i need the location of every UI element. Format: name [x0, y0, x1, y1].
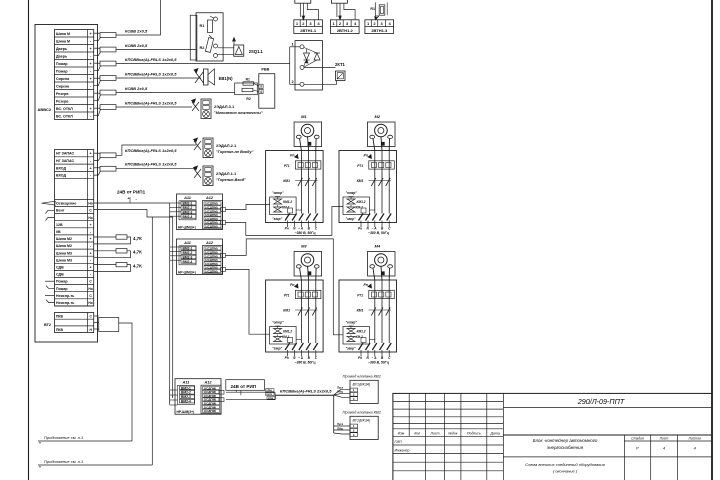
svg-text:КСВВ 2х0,5: КСВВ 2х0,5 — [125, 43, 148, 48]
svg-text:~: ~ — [372, 356, 374, 360]
svg-text:Пуск: Пуск — [337, 422, 344, 426]
svg-text:0В: 0В — [56, 230, 61, 234]
bus stubs into block C — [170, 389, 178, 391]
wire arrow into 2ВТН1.1 pin2 — [302, 3, 304, 20]
svg-text:Листов: Листов — [688, 437, 702, 441]
svg-text:Инженер: Инженер — [395, 448, 410, 452]
svg-text:"откр": "откр" — [272, 191, 284, 195]
device box АВВС2 — [35, 25, 98, 343]
svg-text:2КТ1: 2КТ1 — [335, 62, 346, 67]
svg-text:РТ1: РТ1 — [357, 164, 363, 168]
motor М2 circle — [375, 124, 388, 137]
phase wires — [374, 151, 376, 214]
left cell frame — [179, 246, 196, 265]
pin 1 — [300, 45, 304, 49]
motor М4 box — [368, 252, 396, 277]
left cells А11 — [181, 246, 196, 250]
cable marker box 2 — [100, 47, 116, 52]
wire B stub2 to M3 coil box — [226, 269, 270, 334]
hook left of Неисправность Но row — [46, 300, 55, 303]
svg-text:НР-ШМ(3+): НР-ШМ(3+) — [177, 410, 195, 414]
terminal row divider — [55, 104, 94, 106]
svg-text:М2: М2 — [375, 114, 381, 119]
bus bottom link — [169, 390, 171, 405]
svg-text:2ЭДАЛ.1.1: 2ЭДАЛ.1.1 — [216, 171, 237, 176]
svg-text:Продолжение см. л.1: Продолжение см. л.1 — [44, 459, 83, 464]
svg-text:РТ1: РТ1 — [357, 294, 363, 298]
svg-text:~380 В, 50Гц: ~380 В, 50Гц — [368, 361, 390, 365]
svg-text:Шина М: Шина М — [56, 39, 70, 43]
ПКВ junction box — [99, 318, 119, 332]
row divider — [55, 227, 94, 229]
row divider — [55, 291, 94, 293]
terminal row divider — [55, 111, 94, 113]
svg-text:Дверь: Дверь — [56, 54, 68, 58]
wire pair to cable 5 — [94, 92, 100, 94]
title block left table columns — [408, 393, 410, 436]
row divider — [55, 220, 94, 222]
indicator body 2ЭДАЛ.1.1 — [203, 166, 213, 186]
breaker strokes at bottom — [359, 343, 364, 350]
resistor bracket box — [235, 83, 258, 95]
svg-text:НР-ШМ(3+): НР-ШМ(3+) — [178, 270, 196, 274]
fan wires to КВ1 — [334, 389, 350, 395]
svg-text:+: + — [90, 251, 92, 255]
svg-text:2: 2 — [292, 80, 294, 84]
coil link wire — [370, 339, 375, 341]
detector symbol 2ЭДАЛ.1.1 — [194, 169, 201, 178]
indicator lamp 2ЭДАЛ.3.1 — [203, 111, 210, 118]
pin mid — [300, 66, 304, 70]
motor М3 terminals — [296, 265, 301, 268]
wire cable2a to 2EDAL.2.1 — [116, 145, 196, 155]
wire A stub2 to M2 coil box — [226, 207, 344, 236]
sheet right frame line — [711, 0, 713, 480]
svg-text:12В: 12В — [56, 223, 63, 227]
svg-text:R1: R1 — [246, 77, 250, 81]
terminal row divider — [55, 59, 94, 61]
wires ВТ2 to junction box — [94, 315, 99, 317]
connector block А11 outer — [177, 239, 223, 275]
svg-text:ВМ2-3: ВМ2-3 — [181, 395, 191, 399]
row divider — [55, 255, 94, 257]
breaker strokes at bottom — [285, 214, 290, 221]
svg-text:КМ1: КМ1 — [283, 179, 290, 183]
svg-text:КСВВ 2х0,5: КСВВ 2х0,5 — [125, 86, 148, 91]
svg-text:А12: А12 — [205, 196, 214, 200]
svg-text:РВВ: РВВ — [261, 68, 269, 72]
coil box — [270, 327, 297, 345]
svg-text:~380 В, 50Гц: ~380 В, 50Гц — [295, 231, 317, 235]
svg-text:~380 В, 50Гц: ~380 В, 50Гц — [368, 231, 390, 235]
svg-text:ЕВ1(N): ЕВ1(N) — [219, 76, 234, 81]
wire pair to cable 6 — [94, 107, 100, 109]
terminal strip XT1 group1 box — [55, 30, 94, 120]
svg-text:ПКВ: ПКВ — [56, 315, 64, 319]
svg-text:R2: R2 — [200, 46, 205, 50]
branch down to КВ2 — [333, 395, 335, 433]
starter box М1 — [266, 151, 324, 223]
coil box — [270, 197, 297, 215]
sounder EB1 cross symbol — [195, 72, 204, 84]
svg-text:+: + — [128, 197, 130, 201]
svg-text:КМ-1: КМ-1 — [282, 335, 290, 339]
svg-text:КМ1.2: КМ1.2 — [283, 200, 292, 204]
motor М1 leads — [300, 139, 302, 151]
svg-text:"закр": "закр" — [272, 217, 282, 221]
svg-text:2ВТН1.1: 2ВТН1.1 — [300, 28, 317, 33]
row divider — [55, 156, 94, 158]
resistor 4,7К #2 — [94, 250, 116, 252]
valve symbol 2 — [274, 207, 282, 212]
hook left of Вент row — [46, 210, 55, 213]
terminal row divider — [55, 44, 94, 46]
svg-text:4,7К: 4,7К — [133, 263, 142, 268]
motor М1 box — [294, 122, 322, 147]
svg-text:КМ-1: КМ-1 — [282, 206, 290, 210]
svg-text:н: н — [39, 465, 41, 469]
sheet name divider — [503, 456, 712, 458]
svg-text:КМ1.2: КМ1.2 — [357, 330, 366, 334]
svg-text:СДВ: СДВ — [56, 273, 64, 277]
svg-text:КСВВ 2х0,5: КСВВ 2х0,5 — [125, 28, 148, 33]
thermal relay РТ1 box — [369, 161, 395, 169]
hook left of row3 — [46, 217, 55, 220]
wire 24V plus bus — [94, 202, 170, 204]
svg-text:Пожар: Пожар — [56, 287, 68, 291]
svg-text:ВМ2-2: ВМ2-2 — [183, 251, 193, 255]
svg-text:КПСВВнг(А)-FRLS 2х2х0,5: КПСВВнг(А)-FRLS 2х2х0,5 — [280, 388, 332, 393]
diode 1 — [304, 53, 310, 60]
svg-text:( окончание ): ( окончание ) — [553, 469, 578, 474]
svg-text:-: - — [90, 244, 91, 248]
motor М2 terminals — [370, 135, 375, 138]
relay coil 2КТ1 — [336, 71, 346, 81]
svg-text:Общ: Общ — [337, 426, 344, 430]
svg-text:-: - — [90, 258, 91, 262]
wire cable2b to 2EDAL.1.1 — [116, 168, 196, 170]
terminal row divider — [55, 74, 94, 76]
svg-text:СДВ: СДВ — [56, 266, 64, 270]
terminal block 2ВТН1.3 — [365, 20, 394, 34]
svg-text:"откр": "откр" — [346, 321, 358, 325]
cable marker box 4 — [100, 76, 116, 81]
row divider — [55, 234, 94, 236]
device stub above 2ВТН1.2 — [331, 0, 347, 3]
svg-text:КПСВВнг(А)-FRLS 1х2х0,5: КПСВВнг(А)-FRLS 1х2х0,5 — [125, 100, 177, 105]
svg-text:Привод клапана КВ1: Привод клапана КВ1 — [343, 373, 381, 378]
svg-text:+: + — [90, 266, 92, 270]
row divider — [55, 213, 94, 215]
svg-text:пуск: пуск — [266, 393, 272, 396]
aux contact square — [288, 208, 293, 213]
row divider — [55, 198, 94, 200]
svg-text:Но: Но — [88, 287, 92, 291]
row divider — [55, 318, 94, 320]
switch unit R1 R2 box — [196, 13, 223, 61]
motor lead tap square — [308, 142, 311, 145]
right stub 1 of C — [219, 390, 224, 394]
svg-text:"закр": "закр" — [272, 347, 282, 351]
svg-text:Пуск: Пуск — [337, 385, 344, 389]
svg-text:ВС. ОТКЛ: ВС. ОТКЛ — [56, 114, 73, 118]
valve symbol 2 — [347, 337, 355, 342]
starter box М2 — [339, 151, 397, 223]
phase wires — [300, 280, 302, 343]
cable marker box — [100, 153, 116, 158]
label 24В от РИП — [226, 380, 265, 391]
breaker strokes at bottom — [285, 343, 290, 350]
wire jog into 2ВТН1.1 pin4 — [307, 3, 318, 20]
limit switch 2SQ1.1 — [218, 47, 234, 49]
motor lead tap square — [381, 272, 384, 275]
resistor 4,7К #1 — [94, 236, 116, 238]
indicator body 2ЭДАЛ.3.1 — [201, 99, 211, 119]
svg-text:"откр": "откр" — [346, 191, 358, 195]
detector symbol 2ЭДАЛ.3.1 — [192, 102, 199, 111]
svg-text:ВУ1(ВК3А): ВУ1(ВК3А) — [353, 418, 371, 422]
row divider — [55, 178, 94, 180]
coil link wire — [370, 209, 375, 211]
svg-text:-: - — [90, 230, 91, 234]
svg-text:~: ~ — [298, 227, 300, 231]
svg-text:R1: R1 — [200, 24, 205, 28]
row divider — [55, 277, 94, 279]
wire cable4 to sounder — [116, 77, 201, 79]
left cells А11 — [181, 201, 196, 205]
svg-text:"закр": "закр" — [346, 347, 356, 351]
wire ПКВ to continuation line 1 — [119, 323, 132, 441]
cable marker box — [100, 166, 116, 171]
svg-text:290/Л-09-ППТ: 290/Л-09-ППТ — [577, 397, 625, 406]
svg-text:Схема внешних соединений обору: Схема внешних соединений оборудования — [525, 462, 605, 467]
wire B stub1 to M4 coil box — [226, 239, 344, 335]
vertical bus 24V+ — [169, 203, 171, 403]
hook left of Пожар С row — [45, 280, 55, 282]
svg-text:Сирена: Сирена — [56, 77, 70, 81]
wire 24V minus bus jog — [94, 210, 173, 218]
terminal strip XT2 box — [55, 150, 94, 307]
wire pin2 to coil — [304, 81, 337, 85]
svg-text:+: + — [90, 223, 92, 227]
svg-text:Рн: Рн — [285, 227, 289, 231]
wire jog into 2ВТН1.2 pin4 — [344, 3, 355, 20]
svg-text:~: ~ — [372, 227, 374, 231]
svg-text:Шина М3: Шина М3 — [56, 258, 72, 262]
svg-text:КПСВВнг(А)-FRLS 1х2х0,5: КПСВВнг(А)-FRLS 1х2х0,5 — [125, 57, 177, 62]
svg-text:4: 4 — [260, 90, 262, 94]
hook left of Пожар Но row — [46, 286, 55, 289]
svg-text:Сирена: Сирена — [56, 84, 70, 88]
svg-text:А12: А12 — [204, 381, 213, 385]
cable tag cells — [266, 389, 275, 392]
svg-text:ВТ2: ВТ2 — [44, 323, 51, 327]
terminal cells КВ2 — [350, 424, 358, 428]
svg-text:1(СДПМ): 1(СДПМ) — [205, 269, 218, 273]
svg-text:"Горение-не Входу": "Горение-не Входу" — [216, 150, 254, 154]
thermal relay РТ1 box — [295, 290, 321, 298]
right stub 1 of A — [221, 208, 226, 212]
wire arrow into 2ВТН1.2 pin2 — [339, 3, 341, 20]
right stub 2 of A — [221, 221, 226, 225]
svg-text:Неиспр-ть: Неиспр-ть — [56, 294, 75, 298]
breaker strokes at bottom — [359, 214, 364, 221]
svg-text:н: н — [39, 441, 41, 445]
starter box М4 — [339, 280, 397, 352]
wire A stub1 to M1 coil box — [226, 205, 270, 210]
svg-text:ВУ1(ВК3А): ВУ1(ВК3А) — [353, 382, 371, 386]
svg-text:"Мгновенно отключены": "Мгновенно отключены" — [214, 111, 263, 115]
cable marker box 6 — [100, 105, 116, 110]
svg-text:2ЭДАЛ.2.1: 2ЭДАЛ.2.1 — [216, 143, 237, 148]
row divider — [55, 325, 94, 327]
svg-text:Пожар: Пожар — [56, 62, 68, 66]
cable marker box 5 — [100, 90, 116, 95]
wire arrow into 2ВТН1.3 pin2 — [375, 16, 379, 20]
wire cable2 to R-box — [116, 49, 196, 51]
svg-text:Рн: Рн — [285, 356, 289, 360]
row divider — [55, 241, 94, 243]
continuation line 1 — [38, 440, 132, 442]
svg-text:Пожар: Пожар — [56, 280, 68, 284]
svg-text:R2: R2 — [246, 97, 250, 101]
terminal block 2ВТН1.2 — [330, 20, 359, 34]
terminal row divider — [55, 66, 94, 68]
resistor R1 of РВВ — [243, 82, 254, 85]
relay unit box — [295, 41, 323, 90]
phase wires — [374, 280, 376, 343]
svg-text:Шина М3: Шина М3 — [56, 251, 72, 255]
wire to relay coil 2КТ1 — [304, 67, 336, 69]
svg-text:Неиспр-ть: Неиспр-ть — [56, 301, 75, 305]
svg-text:ГИП: ГИП — [395, 440, 403, 444]
svg-text:КМ1: КМ1 — [283, 309, 290, 313]
aux contact square — [361, 208, 366, 213]
aux contact square — [361, 338, 366, 343]
svg-text:Общ: Общ — [337, 390, 344, 394]
svg-text:КПСВВнг(А)-FRLS 1х2х0,5: КПСВВнг(А)-FRLS 1х2х0,5 — [125, 148, 177, 153]
fan wires to КВ2 — [334, 425, 350, 427]
svg-text:Освещение: Освещение — [56, 202, 76, 206]
svg-text:М3: М3 — [301, 244, 307, 249]
svg-text:НГ ЗАПАС: НГ ЗАПАС — [56, 152, 75, 156]
vertical bus 24V- — [172, 217, 174, 398]
svg-text:энергоснабжения: энергоснабжения — [547, 445, 584, 450]
left cell frame — [179, 201, 196, 220]
row divider — [55, 298, 94, 300]
svg-text:№док: №док — [448, 432, 458, 436]
svg-text:Привод клапана КВ2: Привод клапана КВ2 — [343, 409, 382, 414]
pin 2 — [300, 82, 304, 86]
svg-text:А11: А11 — [183, 241, 191, 245]
motor М3 leads — [300, 268, 302, 280]
svg-text:Кол: Кол — [414, 432, 420, 436]
svg-text:"Горение-Вход": "Горение-Вход" — [216, 178, 246, 182]
cell 3 — [259, 84, 263, 88]
right cell column А12 — [203, 246, 223, 274]
resistor 4,7К #3 — [94, 264, 116, 266]
svg-text:Изм: Изм — [398, 432, 405, 436]
svg-text:Шина М: Шина М — [56, 32, 70, 36]
wire pair to cable — [94, 152, 100, 154]
wire pair to cable 3 — [94, 62, 100, 64]
svg-text:ВХОД: ВХОД — [56, 174, 67, 178]
title block row lines — [393, 400, 504, 402]
motor М4 circle — [375, 254, 388, 267]
svg-text:Блок -контейнер автономного: Блок -контейнер автономного — [533, 438, 598, 443]
svg-text:КМ-1: КМ-1 — [356, 206, 364, 210]
detector symbol 2ЭДАЛ.2.1 — [194, 141, 201, 150]
row divider — [55, 248, 94, 250]
svg-text:ВМ2-3: ВМ2-3 — [183, 210, 193, 214]
svg-text:А11: А11 — [183, 196, 191, 200]
connector block А11 outer — [177, 194, 223, 230]
svg-text:ВМ2-3: ВМ2-3 — [183, 255, 193, 259]
svg-text:Лист: Лист — [429, 432, 439, 436]
thermal relay РТ1 box — [369, 290, 395, 298]
row divider — [55, 269, 94, 271]
svg-text:1: 1 — [292, 43, 294, 47]
terminal strip ВТ2 box — [55, 313, 94, 333]
diode 2 — [314, 53, 320, 60]
right stub 2 of C — [219, 398, 224, 402]
motor lead tap square — [381, 142, 384, 145]
svg-text:М1: М1 — [301, 114, 307, 119]
hook left of Неисправность С row — [45, 294, 55, 296]
cable marker box 1 — [100, 33, 116, 38]
svg-text:КМ1: КМ1 — [357, 309, 364, 313]
wires block C to cable — [226, 391, 275, 393]
svg-text:ВМ2-1: ВМ2-1 — [181, 386, 191, 390]
svg-text:Рн: Рн — [358, 356, 362, 360]
valve drive КВ2 box — [350, 416, 378, 439]
motor М1 circle — [301, 124, 314, 137]
thermal relay РТ1 box — [295, 161, 321, 169]
svg-text:2ВТН1.3: 2ВТН1.3 — [371, 28, 388, 33]
motor lead tap square — [308, 272, 311, 275]
svg-text:Но: Но — [88, 202, 92, 206]
svg-text:2ВТН1.2: 2ВТН1.2 — [337, 28, 354, 33]
coil box — [343, 197, 370, 215]
wire pair to cable — [94, 167, 100, 169]
svg-text:ВМ2-2: ВМ2-2 — [181, 391, 191, 395]
terminal row divider — [55, 96, 94, 98]
svg-text:ВМ2-1: ВМ2-1 — [183, 202, 193, 206]
svg-text:Резерв: Резерв — [56, 99, 69, 103]
svg-text:Рн: Рн — [358, 227, 362, 231]
wire pair to cable 1 — [94, 32, 100, 34]
svg-text:Подпись: Подпись — [467, 432, 481, 436]
svg-text:НР-ШМ(3+): НР-ШМ(3+) — [178, 225, 196, 229]
left pin bus — [290, 46, 300, 48]
svg-text:R1: R1 — [370, 7, 375, 11]
svg-text:ПКВ: ПКВ — [56, 328, 64, 332]
svg-text:~380 В, 50Гц: ~380 В, 50Гц — [295, 361, 317, 365]
continuation line 2 — [38, 464, 152, 466]
motor М4 terminals — [370, 265, 375, 268]
wire branch to continuation line 2 — [151, 217, 153, 465]
motor М2 box — [368, 122, 396, 147]
svg-text:Шина М2: Шина М2 — [56, 237, 72, 241]
resistor R2 of РВВ — [242, 88, 253, 91]
svg-text:ВМ2-4: ВМ2-4 — [183, 260, 193, 264]
svg-text:1(СДПМ): 1(СДПМ) — [205, 224, 218, 228]
valve symbol 2 — [274, 337, 282, 342]
svg-text:Дверь: Дверь — [56, 47, 68, 51]
valve drive КВ1 box — [350, 380, 378, 403]
svg-text:А11: А11 — [182, 381, 190, 385]
svg-text:ВМ2-4: ВМ2-4 — [183, 215, 193, 219]
